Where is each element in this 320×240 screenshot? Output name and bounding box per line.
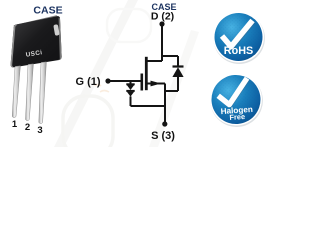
- svg-text:D (2): D (2): [151, 11, 174, 23]
- svg-text:1: 1: [12, 119, 18, 130]
- svg-text:2: 2: [25, 122, 30, 133]
- svg-text:S (3): S (3): [151, 130, 175, 142]
- svg-text:CASE: CASE: [33, 5, 62, 17]
- svg-text:Free: Free: [229, 112, 245, 122]
- svg-text:RoHS: RoHS: [224, 45, 253, 57]
- svg-text:G (1): G (1): [75, 76, 100, 88]
- svg-text:3: 3: [37, 125, 42, 136]
